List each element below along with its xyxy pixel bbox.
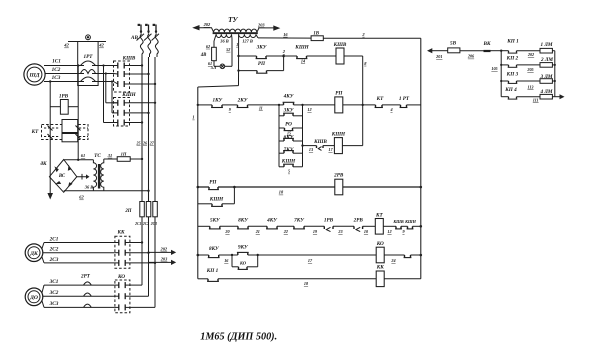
svg-text:1С3: 1С3 [52, 75, 61, 81]
contact КП4 lamps [501, 97, 540, 99]
contact 2РВ [333, 226, 363, 231]
svg-text:1: 1 [236, 42, 238, 47]
svg-text:9КУ: 9КУ [238, 245, 249, 251]
svg-text:1КУ: 1КУ [212, 98, 223, 104]
wire to relay 1РВ left [49, 82, 51, 194]
wire 201 arrow [427, 48, 448, 53]
svg-text:КК: КК [376, 265, 385, 271]
power line phase 2 vertical [148, 57, 150, 253]
svg-text:203: 203 [257, 22, 265, 27]
svg-text:РП: РП [209, 180, 217, 186]
svg-text:4КУ: 4КУ [283, 94, 295, 100]
svg-text:КП 1: КП 1 [206, 268, 219, 274]
contact КШН ladder bottom [279, 164, 303, 167]
svg-text:КШН: КШН [294, 45, 309, 51]
svg-text:3 ЛМ: 3 ЛМ [539, 74, 552, 80]
fuse 1В [311, 36, 323, 41]
wire 127В right to top line [256, 35, 258, 38]
contact КШН interlock [284, 56, 336, 59]
svg-text:111: 111 [533, 98, 539, 103]
wire terminal 42 right [98, 41, 106, 43]
relay coil КО [258, 247, 405, 263]
power line phase 3 vertical [154, 57, 156, 263]
svg-text:11: 11 [259, 106, 263, 111]
svg-text:3С1: 3С1 [49, 279, 59, 285]
circuit breaker АВ [137, 24, 160, 57]
wire КО outputs [130, 285, 155, 307]
lamp 1ЛМ [540, 48, 555, 53]
svg-text:9: 9 [402, 229, 405, 234]
svg-text:2: 2 [361, 32, 365, 37]
contactor КШВ main contacts (dashed box) [114, 61, 130, 92]
wire bridge DC output arrow [77, 174, 86, 180]
wire stubs inside КШН box [114, 103, 130, 123]
svg-text:25: 25 [136, 140, 141, 145]
svg-text:201: 201 [435, 54, 442, 59]
contact 3КУ ladder [279, 113, 303, 116]
svg-text:КО: КО [239, 261, 247, 266]
svg-text:КП 4: КП 4 [504, 87, 517, 93]
svg-text:1П: 1П [121, 151, 127, 156]
svg-text:113: 113 [527, 84, 533, 89]
contact 7КУ row2 [277, 226, 305, 229]
svg-text:202: 202 [527, 52, 534, 57]
svg-text:31: 31 [107, 153, 112, 158]
contact 1КУ [197, 104, 223, 108]
svg-text:2РВ: 2РВ [353, 218, 364, 224]
svg-text:2 ЛМ: 2 ЛМ [540, 57, 553, 63]
wire КШН outputs to phases [130, 102, 157, 124]
svg-text:КШН: КШН [404, 219, 417, 224]
relay coil 2РВ [335, 179, 422, 195]
contact РП bypass [239, 56, 284, 73]
svg-text:8: 8 [364, 61, 367, 66]
contactor КШН main contacts (dashed box) [114, 98, 130, 127]
svg-text:1РВ: 1РВ [324, 218, 334, 224]
svg-text:ДК: ДК [29, 251, 39, 257]
contactor КК contacts (dashed box) [115, 236, 130, 268]
svg-text:6КУ: 6КУ [284, 135, 295, 141]
contact 5КУ [198, 226, 221, 229]
svg-text:2С3: 2С3 [150, 222, 157, 226]
wire 3С2 [43, 295, 115, 297]
svg-text:8КУ: 8КУ [209, 246, 220, 252]
contact КШВ interlock [301, 144, 334, 150]
wire terminal 42 left [68, 41, 78, 43]
svg-text:АВ: АВ [130, 35, 138, 41]
svg-text:36 В: 36 В [84, 185, 93, 190]
svg-text:21: 21 [255, 229, 260, 234]
wire right rail [420, 38, 422, 279]
svg-text:2С1: 2С1 [49, 236, 59, 242]
wire 202 arrow local light [149, 250, 177, 255]
svg-text:4КУ: 4КУ [266, 218, 278, 224]
svg-text:КШН: КШН [281, 159, 296, 165]
svg-text:16: 16 [224, 258, 229, 263]
svg-text:26: 26 [142, 140, 147, 145]
wire node 62 bottom [64, 190, 149, 192]
svg-text:206: 206 [467, 54, 475, 59]
svg-text:22: 22 [283, 229, 288, 234]
contact КШН bypass 2РВ [198, 186, 236, 207]
wire 2С2 [43, 252, 115, 254]
svg-text:КТ: КТ [375, 213, 384, 219]
svg-text:КШН: КШН [331, 132, 346, 138]
lamp 4ЛМ [540, 94, 555, 99]
svg-text:2С2: 2С2 [142, 222, 149, 226]
relay coil КТ [363, 219, 396, 235]
svg-text:2: 2 [282, 49, 286, 54]
svg-text:КШВ: КШВ [392, 219, 404, 224]
wire stubs inside КО box [115, 285, 130, 307]
svg-text:4: 4 [389, 107, 392, 112]
motor ДК [25, 244, 43, 262]
wire 2С1 [42, 243, 44, 249]
svg-text:23: 23 [337, 229, 342, 234]
svg-text:62: 62 [206, 44, 210, 49]
labels lamp numbers [526, 52, 538, 102]
svg-text:203: 203 [160, 257, 168, 262]
contact КП1 row4 [198, 279, 219, 282]
svg-text:ДО: ДО [29, 295, 38, 301]
svg-text:7КУ: 7КУ [294, 218, 305, 224]
svg-text:18: 18 [279, 190, 284, 195]
lamp 5Л [220, 35, 232, 69]
svg-text:3КУ: 3КУ [283, 107, 295, 113]
contact 4КУ row2 [248, 226, 278, 229]
svg-text:ВК: ВК [483, 41, 491, 47]
wire КШВ outputs to phases [130, 64, 157, 85]
wire stubs inside КШВ box [114, 66, 130, 85]
svg-text:7КУ: 7КУ [284, 147, 295, 153]
wire 203 arrow local light [149, 260, 177, 265]
svg-text:КШВ: КШВ [313, 139, 327, 145]
lamp bus right ground arrow [554, 51, 565, 99]
svg-text:127 В: 127 В [242, 38, 253, 43]
svg-text:КО: КО [376, 241, 384, 247]
svg-text:3С2: 3С2 [49, 290, 59, 296]
svg-text:1 РТ: 1 РТ [399, 96, 410, 102]
wire КК outputs [130, 241, 156, 264]
relay coil КК [218, 271, 421, 287]
svg-text:КП 3: КП 3 [506, 72, 519, 78]
svg-text:1С1: 1С1 [52, 58, 61, 64]
thermal relay 2РТ [84, 282, 92, 308]
svg-text:1 ЛМ: 1 ЛМ [540, 42, 552, 48]
svg-text:ТУ: ТУ [228, 16, 238, 24]
switch ВК [460, 50, 501, 52]
fuse 1П [104, 157, 143, 162]
contact 7КУ ladder [279, 151, 303, 154]
contact 2КУ [222, 105, 279, 108]
thermal relay 1РТ [78, 35, 114, 86]
power feeders down to КО [142, 243, 155, 308]
svg-text:КП 2: КП 2 [506, 55, 519, 61]
lamp 3ЛМ [540, 79, 555, 84]
svg-text:КО: КО [117, 274, 125, 280]
contact КТ [375, 105, 401, 108]
transformer ТС [93, 159, 103, 191]
svg-text:202: 202 [203, 22, 211, 27]
svg-text:9: 9 [229, 107, 232, 112]
svg-text:2РВ: 2РВ [333, 173, 344, 179]
svg-text:8КУ: 8КУ [238, 218, 249, 224]
svg-text:1М65 (ДИП 500).: 1М65 (ДИП 500). [200, 332, 277, 343]
svg-text:КШН: КШН [121, 92, 136, 98]
svg-text:2С3: 2С3 [49, 257, 59, 263]
fuses 2П [140, 202, 158, 243]
svg-text:3КУ: 3КУ [256, 45, 268, 51]
svg-text:КТ: КТ [31, 129, 40, 135]
svg-text:4В: 4В [200, 53, 207, 58]
wire 3С1 [42, 285, 44, 293]
contact 8КУ row2 [220, 226, 249, 229]
svg-text:61: 61 [81, 153, 85, 158]
svg-text:36 В: 36 В [219, 38, 228, 43]
wire 1С1 [44, 65, 84, 67]
svg-text:дК: дК [40, 160, 47, 167]
svg-text:17: 17 [328, 147, 333, 152]
power line phase 1 vertical [141, 57, 143, 243]
svg-text:КП 1: КП 1 [506, 39, 519, 45]
node 2 [282, 55, 285, 58]
svg-text:24: 24 [390, 258, 395, 263]
wire КШН reversing feeders [102, 64, 117, 122]
svg-text:ВС: ВС [58, 174, 66, 179]
wire stubs inside КК box [115, 243, 130, 263]
contact КШН row2 [407, 225, 423, 229]
relay coil РП [303, 97, 376, 113]
time relay КТ (dashed box) [42, 120, 89, 142]
svg-text:КТ: КТ [376, 96, 385, 102]
svg-text:4 ЛМ: 4 ЛМ [539, 89, 552, 95]
contactor coil КШВ [336, 48, 363, 64]
svg-text:1С2: 1С2 [52, 67, 61, 73]
contact КК row3 [404, 254, 423, 258]
svg-text:КК: КК [116, 229, 125, 235]
contactor КО contacts (dashed box) [115, 280, 130, 313]
contact 1РВ [304, 226, 333, 231]
svg-text:2С2: 2С2 [49, 247, 59, 253]
contact 6КУ ladder [279, 138, 303, 141]
svg-text:14: 14 [301, 58, 305, 63]
wire to relay 1РВ right [77, 66, 79, 160]
contact 8КУ row3 [197, 254, 233, 258]
ground arrow down [47, 193, 53, 200]
svg-text:10: 10 [364, 229, 369, 234]
svg-text:202: 202 [160, 247, 168, 252]
svg-text:52: 52 [226, 47, 230, 52]
contact 1РТ [400, 105, 421, 108]
contact 4КУ [278, 102, 304, 106]
svg-text:1: 1 [192, 115, 194, 120]
contact 3КУ [239, 56, 284, 59]
svg-text:РП: РП [335, 91, 343, 97]
rectifier bridge ВС [49, 160, 76, 193]
lamp 2ЛМ [540, 63, 555, 68]
wire common node 8 vertical [362, 56, 364, 146]
wire 2С3 [42, 257, 44, 263]
fuse 5В [448, 48, 460, 53]
wire left rail [198, 86, 239, 279]
contact КП1 lamps [501, 51, 540, 53]
wire top line node 16 [258, 37, 311, 39]
contact КП3 lamps [501, 81, 540, 83]
svg-text:2П: 2П [124, 209, 131, 214]
wire top line node 2 [323, 37, 421, 39]
contact КШВ row2 [395, 226, 407, 229]
svg-text:12: 12 [307, 107, 311, 112]
svg-text:42: 42 [98, 43, 104, 48]
svg-text:КШВ: КШВ [122, 56, 136, 62]
svg-text:13: 13 [309, 147, 313, 152]
svg-text:12: 12 [387, 229, 391, 234]
svg-text:КШН: КШН [209, 197, 224, 203]
svg-text:42: 42 [63, 43, 69, 48]
wire node 61 bridge to ТС [64, 159, 94, 161]
svg-text:5В: 5В [450, 41, 457, 47]
wire 127В left drop node 1 [237, 34, 239, 85]
motor ШД [24, 64, 45, 85]
selector ladder rails [279, 105, 303, 167]
svg-text:2РТ: 2РТ [80, 274, 91, 280]
wire 3С3 [42, 301, 44, 307]
svg-text:105: 105 [491, 66, 497, 71]
svg-text:РП: РП [258, 61, 266, 67]
svg-text:1В: 1В [313, 31, 319, 36]
lamp bus left [500, 50, 502, 97]
svg-text:5КУ: 5КУ [210, 218, 221, 224]
svg-text:18: 18 [304, 281, 309, 286]
svg-text:205: 205 [526, 67, 533, 72]
svg-text:16: 16 [283, 32, 288, 37]
wire 1С2 [45, 73, 84, 75]
svg-text:1РТ: 1РТ [84, 54, 94, 60]
svg-text:62: 62 [79, 195, 84, 200]
svg-text:ТС: ТС [94, 153, 101, 159]
svg-text:ШД: ШД [28, 73, 39, 79]
contact 9КУ [231, 252, 259, 256]
motor ДО [25, 288, 43, 306]
svg-text:5: 5 [288, 169, 290, 174]
wire 1С3 [44, 81, 84, 83]
svg-text:19: 19 [313, 229, 318, 234]
contact РП self-hold [197, 186, 335, 190]
labels row2 numbers [224, 229, 405, 234]
svg-text:27: 27 [149, 140, 155, 145]
contact КО bypass [232, 255, 258, 269]
contactor coil КШН [334, 138, 362, 154]
contact КП2 lamps [501, 65, 540, 67]
resistor 4В lamp branch [212, 34, 220, 66]
relay coil 1РВ [50, 100, 78, 115]
contact РО ladder [279, 128, 303, 131]
svg-text:2С1: 2С1 [134, 222, 141, 226]
transformer ТУ [192, 25, 280, 38]
svg-text:20: 20 [224, 229, 230, 234]
svg-text:РО: РО [285, 122, 292, 128]
svg-text:КШВ: КШВ [333, 42, 347, 48]
svg-text:17: 17 [308, 258, 313, 263]
svg-text:1РВ: 1РВ [59, 94, 69, 100]
svg-text:2КУ: 2КУ [237, 98, 249, 104]
svg-text:5Л: 5Л [211, 65, 217, 70]
svg-text:3С3: 3С3 [49, 301, 59, 307]
